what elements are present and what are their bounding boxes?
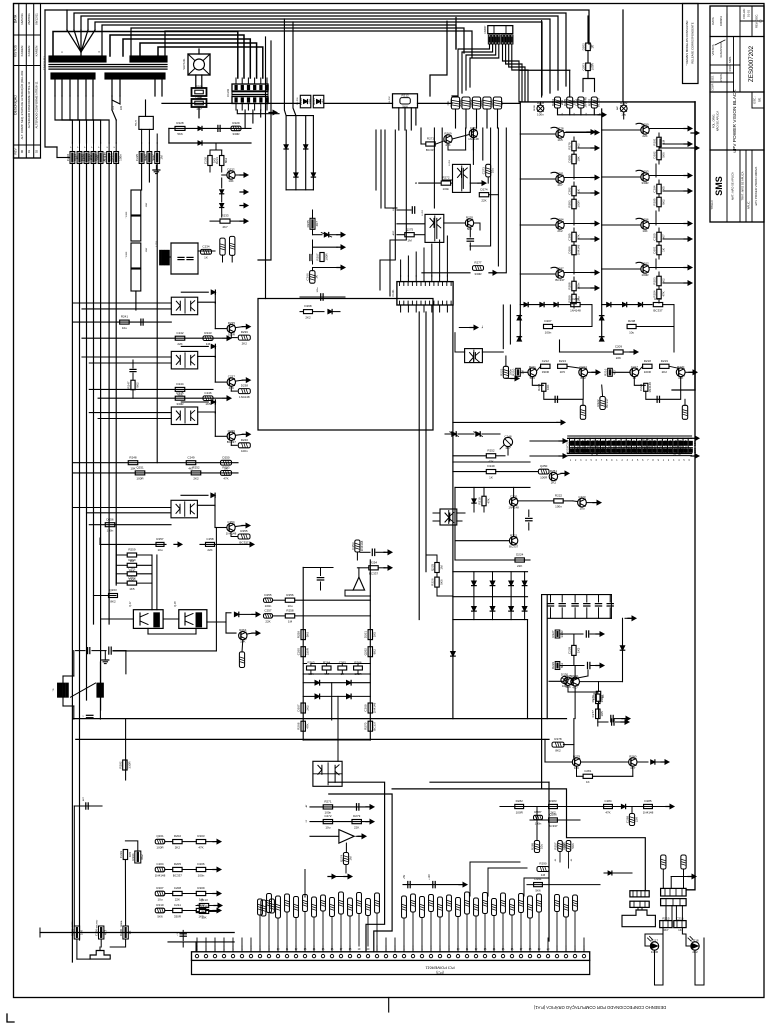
svg-text:1N4148: 1N4148 xyxy=(468,137,479,141)
svg-text:D238: D238 xyxy=(241,384,249,388)
charger cell Q4 collector arrow xyxy=(564,270,599,274)
transformer T2 wires xyxy=(63,651,100,720)
title block DATA label xyxy=(711,17,715,25)
svg-text:C209: C209 xyxy=(615,345,623,349)
svg-text:R234: R234 xyxy=(571,447,575,455)
diode D220 xyxy=(226,612,260,616)
svg-text:D250: D250 xyxy=(222,455,230,459)
svg-text:100n: 100n xyxy=(537,112,544,116)
svg-text:DATA: DATA xyxy=(711,17,715,25)
svg-text:R295: R295 xyxy=(70,929,74,937)
revision table visto KAREN 2 xyxy=(27,46,31,57)
revision table visto KAREN 3 xyxy=(34,46,38,57)
svg-text:5: 5 xyxy=(232,948,234,951)
charger cell arrow 2 xyxy=(578,286,599,290)
svg-text:1m: 1m xyxy=(482,325,484,328)
cluster res R303 xyxy=(515,558,524,562)
svg-text:8: 8 xyxy=(606,460,608,462)
resistor R1b xyxy=(572,151,576,168)
resistor R-LED upper xyxy=(586,43,593,51)
strip feed cap xyxy=(177,930,186,940)
left feed AY xyxy=(264,614,371,618)
svg-text:100n: 100n xyxy=(545,330,552,334)
svg-text:47K: 47K xyxy=(198,845,203,849)
net flag snub xyxy=(231,126,241,131)
zener ZD3 col2 xyxy=(600,316,604,320)
svg-text:R221: R221 xyxy=(87,154,91,162)
svg-text:C224: C224 xyxy=(566,439,570,447)
svg-text:41: 41 xyxy=(555,858,557,861)
svg-text:R296: R296 xyxy=(641,218,649,222)
connector CN-202 label xyxy=(227,88,230,97)
svg-text:10K: 10K xyxy=(79,930,83,935)
svg-text:100n: 100n xyxy=(576,282,580,289)
svg-text:C289: C289 xyxy=(625,816,629,824)
svg-text:6: 6 xyxy=(596,460,598,462)
svg-text:D268: D268 xyxy=(304,304,312,308)
svg-text:D237: D237 xyxy=(633,439,637,447)
svg-text:ALTERADO CONFORME NTR28-11: ALTERADO CONFORME NTR28-11 xyxy=(34,81,38,128)
row y821 left xyxy=(306,819,374,824)
svg-text:R277: R277 xyxy=(474,261,482,265)
svg-text:BC337: BC337 xyxy=(509,545,519,549)
optocoupler U-201 xyxy=(449,159,470,192)
charger feed line xyxy=(560,340,639,354)
diode d610 xyxy=(604,871,632,875)
svg-text:R248: R248 xyxy=(129,455,137,459)
svg-text:10K: 10K xyxy=(562,684,567,688)
svg-text:R210: R210 xyxy=(156,903,164,907)
transistor Q1L xyxy=(528,368,537,377)
svg-text:5: 5 xyxy=(590,460,592,462)
svg-text:BC337: BC337 xyxy=(653,308,663,312)
rc to pills wire xyxy=(198,251,232,262)
svg-text:R206: R206 xyxy=(654,297,662,301)
charger cell arrow 2 xyxy=(578,237,599,241)
svg-text:C232: C232 xyxy=(592,692,596,700)
svg-text:R258: R258 xyxy=(562,842,566,850)
svg-text:PCI POWER611: PCI POWER611 xyxy=(425,966,455,971)
svg-text:BC337: BC337 xyxy=(373,721,377,731)
feed line y322 xyxy=(73,319,171,325)
charger cell Q3 base feed xyxy=(520,224,556,226)
svg-text:Q227: Q227 xyxy=(151,154,155,162)
long bus y719 xyxy=(73,718,567,720)
charger cell Q1 collector arrow xyxy=(564,130,599,134)
CN-BAT right pin wires xyxy=(503,44,529,102)
svg-text:100n: 100n xyxy=(535,821,542,825)
top bus wire 3 xyxy=(81,16,558,90)
svg-text:2: 2 xyxy=(621,460,623,462)
svg-text:D219: D219 xyxy=(661,359,669,363)
transformer T1 label xyxy=(43,56,47,70)
svg-text:2K2: 2K2 xyxy=(306,705,310,711)
optocoupler U6 xyxy=(171,407,197,425)
optocoupler U-206 xyxy=(313,761,342,786)
wire B to strip xyxy=(329,794,392,952)
svg-text:R204: R204 xyxy=(551,99,555,107)
title block FOLHA xyxy=(742,8,751,18)
row y762 xyxy=(545,739,669,766)
charger cell Q6 base feed xyxy=(602,176,641,178)
title block DESENHADO xyxy=(720,42,723,57)
svg-text:R207: R207 xyxy=(588,99,592,107)
svg-text:D214: D214 xyxy=(459,99,463,107)
svg-text:R272: R272 xyxy=(442,176,450,180)
fan supply wire xyxy=(196,49,202,88)
svg-text:4: 4 xyxy=(632,460,634,462)
svg-text:C208: C208 xyxy=(174,886,182,890)
revision table date 26/08/11 xyxy=(27,13,31,25)
svg-text:CI-201: CI-201 xyxy=(392,289,395,297)
svg-text:1K5: 1K5 xyxy=(600,711,604,717)
power resistor RP4 xyxy=(131,269,141,291)
CN-OUT2 pill 2 xyxy=(681,855,686,888)
arrow out Q6a xyxy=(236,432,251,436)
svg-text:Q213: Q213 xyxy=(200,898,208,902)
svg-text:R233: R233 xyxy=(566,447,570,455)
q column top wires xyxy=(210,143,222,150)
svg-text:R227: R227 xyxy=(551,630,555,638)
svg-text:1K: 1K xyxy=(586,780,590,784)
svg-text:R212: R212 xyxy=(402,93,410,97)
transformer T1 primary winding bar left xyxy=(49,56,106,62)
svg-text:R216: R216 xyxy=(480,99,484,107)
svg-text:16: 16 xyxy=(511,948,514,951)
svg-text:ALT. COMP. SEQ. ETAPA DE ALTER: ALT. COMP. SEQ. ETAPA DE ALTERAÇÃO (REL-… xyxy=(19,70,24,139)
svg-text:1: 1 xyxy=(196,948,198,951)
resistor R6a xyxy=(657,180,661,194)
optocoupler U4 xyxy=(171,297,197,315)
zener ZD1 col1 xyxy=(517,310,521,320)
svg-text:R209: R209 xyxy=(620,101,628,105)
svg-text:100n: 100n xyxy=(107,529,114,533)
svg-text:* 100R: * 100R xyxy=(126,251,128,258)
capacitor C201 xyxy=(178,257,184,259)
svg-text:9: 9 xyxy=(448,948,450,951)
svg-text:1M: 1M xyxy=(407,239,412,243)
matrix diode DA1 xyxy=(472,572,477,597)
riser joins xyxy=(220,846,222,848)
resistor R6b xyxy=(657,194,661,211)
revision number 02 xyxy=(34,150,38,154)
strip net flag pills xyxy=(258,892,578,946)
svg-text:1M: 1M xyxy=(288,620,293,624)
svg-text:R241: R241 xyxy=(121,315,129,319)
varistor RV4 xyxy=(91,143,96,164)
svg-text:10u: 10u xyxy=(629,330,634,334)
svg-text:BC337: BC337 xyxy=(369,572,379,576)
svg-text:C248: C248 xyxy=(504,435,512,439)
connector strip label xyxy=(425,966,455,975)
svg-text:R292: R292 xyxy=(118,761,122,769)
charger cell Q2 base feed xyxy=(520,178,556,180)
svg-text:R231: R231 xyxy=(215,157,219,165)
svg-text:330R: 330R xyxy=(306,647,310,655)
transistor Q-row471 xyxy=(549,471,569,480)
svg-text:10u: 10u xyxy=(325,825,330,829)
svg-text:RELEASE CORRESPONDENTE: RELEASE CORRESPONDENTE xyxy=(691,22,695,63)
svg-text:10K: 10K xyxy=(642,229,647,233)
svg-text:ESC.:: ESC.: xyxy=(753,96,757,104)
svg-text:Q287: Q287 xyxy=(556,267,564,271)
q07 feed xyxy=(101,618,133,620)
res 2K a xyxy=(596,682,600,719)
svg-text:TD: TD xyxy=(53,688,55,691)
revision table DESCRICAO header xyxy=(13,95,18,115)
svg-text:DESENHO CONFECCIONADO POR COMP: DESENHO CONFECCIONADO POR COMPUTAÇÃO GRÁ… xyxy=(533,1005,666,1010)
block top pill xyxy=(355,540,360,560)
svg-text:(PCI): (PCI) xyxy=(436,971,443,975)
svg-text:5K6: 5K6 xyxy=(535,888,541,892)
revision table VISTOS header xyxy=(14,44,18,57)
svg-text:22K: 22K xyxy=(354,825,359,829)
resistor R8b xyxy=(657,286,661,303)
svg-text:10u: 10u xyxy=(579,506,584,510)
res arrow row2 xyxy=(357,566,392,570)
svg-text:D292: D292 xyxy=(652,151,656,159)
rail res L4 xyxy=(301,721,305,731)
filter capacitor CF15 xyxy=(607,595,613,619)
snubber rail upper xyxy=(169,127,251,129)
svg-text:10u: 10u xyxy=(122,326,127,330)
svg-text:100n: 100n xyxy=(265,604,272,608)
resistor R4a xyxy=(572,277,576,291)
svg-text:5: 5 xyxy=(412,948,414,951)
svg-text:17: 17 xyxy=(520,948,523,951)
connector CN-202 lower row xyxy=(232,95,268,104)
svg-text:C222: C222 xyxy=(94,154,98,162)
wire bus drop to fuse pin 1 xyxy=(541,21,543,97)
net flag L201 xyxy=(201,249,212,254)
row y806 left xyxy=(305,804,374,810)
svg-text:REV: REV xyxy=(14,148,18,154)
wire bus drop x447 xyxy=(430,21,447,96)
rail res R3 xyxy=(368,703,372,713)
drive row 2 resistors xyxy=(639,364,679,372)
top bus wire 6 xyxy=(102,25,456,56)
svg-text:1K5: 1K5 xyxy=(557,138,563,142)
svg-text:1M: 1M xyxy=(348,856,352,861)
resistor R206 xyxy=(220,150,224,172)
top bus wire 2 xyxy=(74,13,566,86)
vertical drop x125 xyxy=(125,719,127,780)
svg-text:R222: R222 xyxy=(555,494,563,498)
svg-text:R279: R279 xyxy=(567,142,571,150)
title block code ZES0007202 xyxy=(748,45,755,82)
svg-text:D225: D225 xyxy=(571,439,575,447)
svg-text:FASE: FASE xyxy=(71,921,74,927)
svg-text:DESENHADO: DESENHADO xyxy=(720,42,723,57)
bus drop x293 xyxy=(293,22,296,116)
title block signature stroke xyxy=(715,40,725,45)
rail res R1 xyxy=(368,630,372,640)
svg-text:FOL. ORIG.: FOL. ORIG. xyxy=(712,114,716,129)
left bus wire 4 xyxy=(93,164,95,625)
driver bottom route xyxy=(85,640,148,674)
resistor R2a xyxy=(572,182,576,196)
svg-text:R219: R219 xyxy=(477,497,481,505)
dx diode pair A xyxy=(445,432,459,437)
svg-text:R238: R238 xyxy=(591,447,595,455)
svg-text:C281: C281 xyxy=(584,769,592,773)
diode row col2 xyxy=(602,303,674,353)
svg-text:5K6: 5K6 xyxy=(306,632,310,638)
svg-text:4: 4 xyxy=(223,948,225,951)
svg-text:R216: R216 xyxy=(603,368,607,376)
svg-text:D274: D274 xyxy=(480,187,488,191)
net pill P2 xyxy=(230,236,235,255)
title block MAT xyxy=(730,172,735,200)
svg-text:TITULO: TITULO xyxy=(710,200,714,209)
svg-text:D226: D226 xyxy=(143,154,147,162)
svg-text:16/02/11: 16/02/11 xyxy=(20,13,24,25)
U202 input cap xyxy=(393,207,425,224)
svg-text:10K: 10K xyxy=(574,766,579,770)
svg-text:1K: 1K xyxy=(489,475,493,479)
filter cap CF1 xyxy=(139,143,144,164)
svg-text:D224: D224 xyxy=(516,553,524,557)
bridge top rail xyxy=(286,115,313,117)
svg-text:C235: C235 xyxy=(576,447,580,455)
arrow Q201 out xyxy=(235,173,248,177)
svg-text:100n: 100n xyxy=(119,154,123,161)
arrow out Q7a xyxy=(235,523,250,527)
svg-text:1N4148: 1N4148 xyxy=(360,540,364,551)
svg-text:100R: 100R xyxy=(590,62,594,70)
svg-text:C211: C211 xyxy=(174,903,181,907)
bridge vertical 1 xyxy=(285,116,287,190)
svg-text:R255: R255 xyxy=(240,529,248,533)
transistor Q201 xyxy=(222,171,236,179)
fuse pill F3 xyxy=(578,97,584,108)
svg-text:C206: C206 xyxy=(574,99,578,107)
svg-text:R287: R287 xyxy=(534,810,542,814)
transistor Q211 xyxy=(452,129,477,139)
snubber rail lower xyxy=(169,128,251,143)
row y806 right xyxy=(500,804,674,808)
svg-text:C242: C242 xyxy=(176,331,184,335)
charger box bottom right corner xyxy=(672,389,695,391)
svg-text:R243: R243 xyxy=(204,331,212,335)
terminal 3 loop xyxy=(101,916,125,947)
driver transformer T2 right coil xyxy=(97,683,103,697)
charger cell Q4 base feed xyxy=(520,273,556,275)
revision number 01 xyxy=(27,150,31,154)
sense chain pin xyxy=(310,210,315,229)
left bus wire 3 xyxy=(86,164,88,701)
svg-text:U-201: U-201 xyxy=(449,159,451,166)
filter capacitor CF13 xyxy=(584,595,590,619)
ladder resistor RL4 xyxy=(116,581,152,585)
relay coil drop wires xyxy=(380,130,406,296)
U205 input wires xyxy=(420,513,465,541)
output row 1 xyxy=(165,839,221,843)
title block TRAT xyxy=(740,171,745,200)
svg-text:Q251: Q251 xyxy=(136,466,144,470)
svg-text:R251: R251 xyxy=(658,447,662,455)
feed line y398 xyxy=(98,396,231,401)
diode D5a xyxy=(181,344,215,357)
svg-text:C277: C277 xyxy=(591,710,595,718)
svg-text:5: 5 xyxy=(637,460,639,462)
note box demais modelos xyxy=(683,4,699,84)
svg-text:14: 14 xyxy=(313,948,316,951)
svg-text:+12V: +12V xyxy=(428,874,431,880)
sense cap C240 xyxy=(310,240,313,264)
wire D long drop xyxy=(430,782,549,941)
svg-text:C296: C296 xyxy=(95,929,99,937)
title block COMP xyxy=(712,83,715,91)
svg-text:C210: C210 xyxy=(299,98,303,106)
svg-text:C200: C200 xyxy=(652,233,656,241)
transistor Q2L xyxy=(630,368,639,377)
svg-text:6: 6 xyxy=(421,948,423,951)
charger cell Q5 base feed xyxy=(602,129,641,131)
svg-text:10u: 10u xyxy=(157,897,162,901)
transistor Q210 xyxy=(436,135,452,144)
wire A to strip xyxy=(329,782,385,952)
charger cell Q8 base feed xyxy=(602,268,641,270)
fold mark bottom xyxy=(388,998,390,1013)
svg-text:R240: R240 xyxy=(241,438,249,442)
CN-OUT2 mid wires xyxy=(666,906,682,921)
connector CN-OUT1 bar A xyxy=(630,891,649,897)
group2 drops xyxy=(142,164,158,463)
svg-text:22K: 22K xyxy=(207,548,212,552)
battery pill xyxy=(125,841,140,863)
pill riser elbow 5 xyxy=(305,842,314,898)
svg-text:08/12/11: 08/12/11 xyxy=(34,13,38,25)
svg-text:8: 8 xyxy=(259,948,261,951)
svg-text:8K2: 8K2 xyxy=(110,599,116,603)
arrow out Q5a xyxy=(236,378,251,382)
svg-text:R263: R263 xyxy=(307,661,315,665)
svg-text:R257: R257 xyxy=(553,842,557,850)
charger col2 rail xyxy=(601,109,603,340)
svg-text:330R: 330R xyxy=(174,914,182,918)
title block REV DOC xyxy=(755,14,763,28)
svg-text:12: 12 xyxy=(295,948,298,951)
svg-text:2: 2 xyxy=(668,460,670,462)
svg-text:R253: R253 xyxy=(669,447,673,455)
filter capacitor CF11 xyxy=(559,595,565,619)
svg-text:D273: D273 xyxy=(353,814,361,818)
diode D-snub1 xyxy=(198,126,202,130)
long drop pair left of box xyxy=(258,37,271,299)
svg-text:TERRA: TERRA xyxy=(120,920,123,927)
svg-text:C285: C285 xyxy=(567,233,571,241)
svg-text:VISTOS: VISTOS xyxy=(14,44,18,57)
svg-text:100n: 100n xyxy=(198,873,205,877)
mains terminal 3 xyxy=(120,920,128,939)
svg-text:100R: 100R xyxy=(228,332,236,336)
res 2K2 pair xyxy=(426,555,453,596)
svg-text:D255: D255 xyxy=(264,593,272,597)
svg-text:C236: C236 xyxy=(627,439,631,447)
opto pair lamp xyxy=(561,676,571,683)
svg-text:R283: R283 xyxy=(549,799,557,803)
svg-text:C205: C205 xyxy=(572,297,580,301)
svg-text:D256: D256 xyxy=(106,517,114,521)
svg-text:330R: 330R xyxy=(176,402,184,406)
bridge vertical 3 xyxy=(305,116,307,190)
driver transformer T2 left coil xyxy=(58,683,69,697)
output row 2 flag xyxy=(155,867,165,872)
varistor row feed wire xyxy=(57,147,70,158)
svg-text:R239: R239 xyxy=(597,447,601,455)
varistor RV6 xyxy=(107,143,112,164)
